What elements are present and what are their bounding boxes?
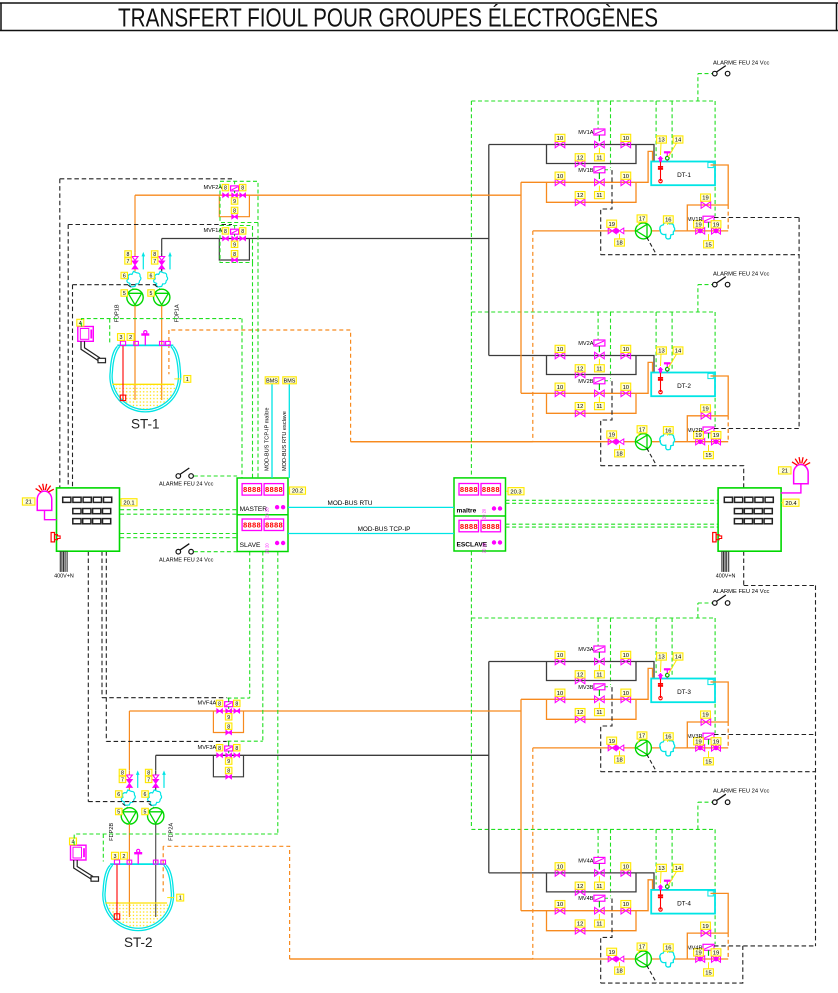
svg-text:MV2B: MV2B (578, 379, 594, 385)
svg-text:17: 17 (639, 427, 645, 433)
svg-text:20.2: 20.2 (292, 489, 303, 495)
svg-text:18: 18 (616, 451, 622, 457)
svg-text:19: 19 (695, 222, 701, 228)
svg-text:19: 19 (608, 739, 614, 745)
svg-text:8888: 8888 (243, 523, 262, 531)
svg-text:8888: 8888 (265, 523, 284, 531)
svg-text:8: 8 (241, 229, 244, 235)
svg-text:21: 21 (782, 469, 788, 475)
svg-text:6: 6 (117, 792, 120, 798)
svg-text:15: 15 (705, 759, 711, 765)
svg-text:20 20: 20 20 (265, 507, 270, 518)
svg-text:8: 8 (224, 229, 227, 235)
svg-text:ST-1: ST-1 (131, 416, 160, 431)
svg-text:10: 10 (557, 385, 563, 391)
svg-text:2: 2 (129, 335, 132, 341)
svg-text:MVF3A: MVF3A (198, 745, 217, 751)
svg-text:16: 16 (665, 218, 671, 224)
svg-text:MOD-BUS TCP-IP: MOD-BUS TCP-IP (358, 526, 411, 533)
svg-text:7: 7 (147, 778, 150, 784)
svg-text:19: 19 (713, 951, 719, 957)
svg-text:19: 19 (608, 950, 614, 956)
svg-text:11: 11 (596, 193, 602, 199)
svg-text:2: 2 (122, 854, 125, 860)
svg-text:7: 7 (153, 259, 156, 265)
svg-text:MV1R: MV1R (687, 217, 703, 223)
svg-text:5: 5 (117, 810, 120, 816)
svg-text:10: 10 (623, 691, 629, 697)
svg-text:10: 10 (557, 174, 563, 180)
svg-text:10: 10 (623, 136, 629, 142)
svg-text:11: 11 (596, 366, 602, 372)
svg-text:MV4A: MV4A (578, 858, 594, 864)
svg-text:MV2R: MV2R (687, 428, 703, 434)
svg-text:20.3: 20.3 (510, 489, 521, 495)
svg-text:14: 14 (675, 655, 682, 661)
svg-text:17: 17 (639, 734, 645, 740)
svg-text:MV3B: MV3B (578, 685, 594, 691)
svg-text:9: 9 (227, 759, 230, 765)
svg-text:8: 8 (227, 724, 230, 730)
svg-text:ALARME FEU 24 Vcc: ALARME FEU 24 Vcc (713, 589, 769, 595)
svg-text:19: 19 (695, 433, 701, 439)
svg-text:8888: 8888 (243, 487, 262, 495)
svg-text:3: 3 (120, 335, 123, 341)
svg-text:ST-2: ST-2 (124, 935, 153, 950)
svg-text:6: 6 (150, 274, 153, 280)
svg-text:21: 21 (25, 500, 31, 506)
svg-text:10: 10 (557, 136, 563, 142)
svg-text:BMS: BMS (266, 378, 278, 384)
svg-text:11: 11 (596, 404, 602, 410)
svg-text:19: 19 (713, 739, 719, 745)
svg-text:15: 15 (705, 453, 711, 459)
svg-text:1: 1 (179, 896, 182, 902)
svg-text:ALARME FEU 24 Vcc: ALARME FEU 24 Vcc (159, 482, 214, 488)
svg-text:8888: 8888 (482, 487, 501, 495)
svg-text:6: 6 (144, 792, 147, 798)
svg-text:20.4: 20.4 (785, 501, 797, 507)
svg-text:MASTER: MASTER (240, 506, 268, 513)
svg-text:MV4B: MV4B (578, 896, 594, 902)
svg-text:12: 12 (577, 366, 583, 372)
svg-text:400V+N: 400V+N (54, 573, 74, 579)
svg-text:8: 8 (218, 702, 221, 708)
svg-text:20.1: 20.1 (123, 500, 134, 506)
svg-text:9: 9 (233, 242, 236, 248)
svg-text:19: 19 (702, 713, 708, 719)
svg-text:1: 1 (186, 377, 189, 383)
svg-text:10: 10 (557, 347, 563, 353)
svg-text:20 20: 20 20 (265, 543, 270, 554)
svg-text:17: 17 (639, 945, 645, 951)
svg-text:5: 5 (150, 291, 153, 297)
svg-text:12: 12 (577, 922, 583, 928)
svg-text:11: 11 (596, 155, 602, 161)
svg-text:13: 13 (658, 866, 664, 872)
svg-text:13: 13 (658, 349, 664, 355)
svg-text:16: 16 (665, 946, 671, 952)
svg-text:ALARME FEU 24 Vcc: ALARME FEU 24 Vcc (713, 788, 769, 794)
svg-text:12: 12 (577, 710, 583, 716)
svg-text:MV2A: MV2A (578, 341, 594, 347)
svg-text:12: 12 (577, 193, 583, 199)
svg-text:10: 10 (623, 902, 629, 908)
svg-text:19: 19 (695, 739, 701, 745)
svg-text:TRANSFERT FIOUL POUR GROUPES É: TRANSFERT FIOUL POUR GROUPES ÉLECTROGÈNE… (118, 3, 658, 33)
svg-text:11: 11 (596, 710, 602, 716)
svg-text:ALARME FEU 24 Vcc: ALARME FEU 24 Vcc (713, 271, 769, 277)
svg-text:8: 8 (224, 186, 227, 192)
svg-text:12: 12 (577, 884, 583, 890)
svg-text:8: 8 (233, 209, 236, 215)
svg-text:FDP2A: FDP2A (169, 823, 175, 841)
svg-text:8: 8 (227, 769, 230, 775)
svg-text:10: 10 (623, 864, 629, 870)
svg-text:DT-2: DT-2 (677, 383, 691, 390)
svg-text:7: 7 (121, 778, 124, 784)
svg-text:17: 17 (639, 217, 645, 223)
svg-text:19: 19 (608, 433, 614, 439)
svg-text:8: 8 (241, 186, 244, 192)
svg-text:MV1B: MV1B (578, 168, 594, 174)
svg-text:9: 9 (227, 715, 230, 721)
svg-text:ALARME FEU 24 Vcc: ALARME FEU 24 Vcc (159, 557, 214, 563)
svg-text:16: 16 (665, 428, 671, 434)
svg-text:10: 10 (557, 691, 563, 697)
svg-text:19: 19 (713, 433, 719, 439)
svg-text:10: 10 (557, 864, 563, 870)
svg-text:5: 5 (144, 810, 147, 816)
svg-text:18: 18 (616, 241, 622, 247)
svg-text:MOD-BUS RTU: MOD-BUS RTU (328, 500, 373, 507)
svg-text:8: 8 (235, 702, 238, 708)
svg-text:19: 19 (702, 407, 708, 413)
svg-text:20 20: 20 20 (482, 542, 487, 553)
svg-text:10: 10 (557, 902, 563, 908)
svg-text:12: 12 (577, 672, 583, 678)
svg-text:10: 10 (623, 385, 629, 391)
svg-text:8: 8 (233, 252, 236, 258)
svg-text:10: 10 (623, 347, 629, 353)
svg-text:12: 12 (577, 404, 583, 410)
svg-text:8888: 8888 (265, 487, 284, 495)
svg-text:18: 18 (616, 758, 622, 764)
svg-text:SLAVE: SLAVE (240, 542, 261, 549)
svg-text:20 20: 20 20 (482, 508, 487, 519)
svg-text:BMS: BMS (284, 378, 296, 384)
svg-text:FDP1B: FDP1B (115, 304, 121, 322)
svg-text:FDP1A: FDP1A (175, 304, 181, 322)
svg-text:3: 3 (114, 854, 117, 860)
svg-text:DT-4: DT-4 (677, 900, 691, 907)
svg-text:8: 8 (218, 746, 221, 752)
svg-text:MOD-BUS TCP-IP maître: MOD-BUS TCP-IP maître (264, 407, 270, 471)
svg-text:MV1A: MV1A (578, 130, 594, 136)
svg-text:8888: 8888 (482, 524, 501, 532)
svg-text:MV3R: MV3R (687, 734, 703, 740)
svg-text:11: 11 (596, 922, 602, 928)
svg-text:14: 14 (675, 138, 682, 144)
svg-text:11: 11 (596, 884, 602, 890)
svg-text:19: 19 (702, 196, 708, 202)
svg-text:19: 19 (713, 222, 719, 228)
svg-text:maître: maître (457, 508, 477, 515)
svg-text:10: 10 (623, 174, 629, 180)
svg-text:9: 9 (233, 199, 236, 205)
svg-text:MOD-BUS RTU esclave: MOD-BUS RTU esclave (282, 411, 288, 471)
svg-text:19: 19 (608, 222, 614, 228)
svg-text:19: 19 (702, 924, 708, 930)
svg-text:15: 15 (705, 971, 711, 977)
svg-text:DT-1: DT-1 (677, 172, 691, 179)
svg-text:10: 10 (623, 653, 629, 659)
svg-text:18: 18 (616, 969, 622, 975)
svg-text:DT-3: DT-3 (677, 689, 691, 696)
svg-text:8: 8 (235, 746, 238, 752)
svg-text:10: 10 (557, 653, 563, 659)
svg-text:400V+N: 400V+N (716, 573, 736, 579)
svg-text:5: 5 (123, 291, 126, 297)
svg-text:8888: 8888 (460, 524, 479, 532)
svg-text:MV4R: MV4R (687, 945, 703, 951)
svg-text:6: 6 (123, 274, 126, 280)
svg-text:MVF4A: MVF4A (198, 701, 217, 707)
svg-text:15: 15 (705, 242, 711, 248)
svg-text:11: 11 (596, 672, 602, 678)
svg-text:19: 19 (695, 951, 701, 957)
svg-text:14: 14 (675, 349, 682, 355)
svg-text:16: 16 (665, 735, 671, 741)
svg-text:12: 12 (577, 155, 583, 161)
svg-text:13: 13 (658, 655, 664, 661)
svg-text:8888: 8888 (460, 487, 479, 495)
svg-text:ALARME FEU 24 Vcc: ALARME FEU 24 Vcc (713, 60, 769, 66)
svg-text:14: 14 (675, 866, 682, 872)
svg-text:13: 13 (658, 138, 664, 144)
svg-text:FDP2B: FDP2B (109, 823, 115, 841)
svg-text:7: 7 (127, 259, 130, 265)
svg-text:MV3A: MV3A (578, 647, 594, 653)
